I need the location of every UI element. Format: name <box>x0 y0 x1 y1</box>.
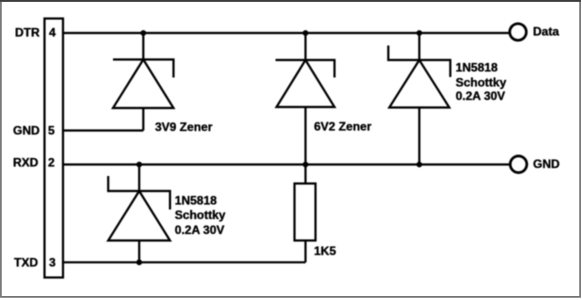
svg-text:1K5: 1K5 <box>314 244 336 258</box>
svg-text:GND: GND <box>533 157 560 171</box>
svg-text:1N5818: 1N5818 <box>456 60 498 74</box>
svg-text:2: 2 <box>48 155 55 169</box>
svg-text:Schottky: Schottky <box>175 208 226 222</box>
svg-text:0.2A 30V: 0.2A 30V <box>175 223 225 237</box>
svg-text:Data: Data <box>533 25 559 39</box>
svg-text:4: 4 <box>49 25 56 39</box>
svg-text:5: 5 <box>48 123 55 137</box>
svg-text:TXD: TXD <box>14 255 38 269</box>
svg-text:DTR: DTR <box>15 25 40 39</box>
svg-text:3: 3 <box>49 255 56 269</box>
svg-text:1N5818: 1N5818 <box>175 193 217 207</box>
svg-text:GND: GND <box>13 123 40 137</box>
svg-text:RXD: RXD <box>13 155 39 169</box>
svg-text:0.2A 30V: 0.2A 30V <box>456 89 506 103</box>
svg-text:Schottky: Schottky <box>456 76 507 90</box>
svg-text:3V9 Zener: 3V9 Zener <box>155 120 213 134</box>
svg-text:6V2 Zener: 6V2 Zener <box>314 120 372 134</box>
